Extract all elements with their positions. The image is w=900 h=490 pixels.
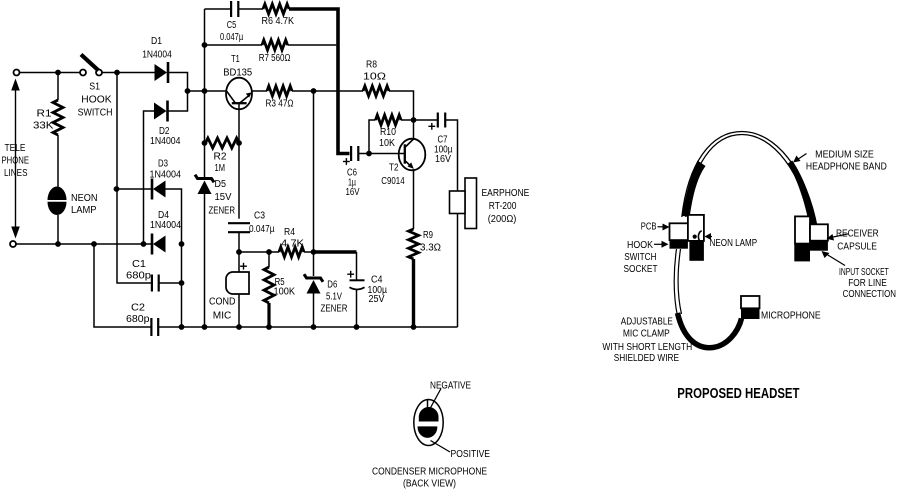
svg-text:COND: COND — [209, 297, 236, 308]
svg-text:T1: T1 — [231, 54, 240, 65]
node junction R7 left on X5 — [202, 42, 208, 48]
node junction T2 collector C7 — [411, 117, 417, 123]
svg-text:PHONE: PHONE — [2, 156, 30, 167]
wire mic bottom to rail — [238, 294, 240, 327]
label POSITIVE — [451, 449, 491, 460]
svg-text:0.047µ: 0.047µ — [249, 224, 275, 235]
headset microphone box — [741, 296, 760, 308]
transistor T1 BD135 — [226, 78, 252, 110]
node junction C1 X3 — [179, 280, 185, 286]
svg-text:15V: 15V — [215, 192, 232, 203]
diode D4 1N4004 — [152, 234, 166, 255]
label NEON LAMP — [71, 193, 98, 216]
diode D3 1N4004 — [152, 179, 166, 200]
svg-text:CONDENSER MICROPHONE: CONDENSER MICROPHONE — [372, 467, 487, 478]
svg-text:HEADPHONE BAND: HEADPHONE BAND — [806, 162, 887, 173]
resistor R5 100K — [264, 267, 274, 303]
wire R4 right short lead — [304, 251, 314, 253]
label R8 10Ω — [363, 60, 386, 83]
wire R1 top lead — [57, 73, 59, 101]
svg-text:CONNECTION: CONNECTION — [843, 289, 896, 300]
svg-text:1N4004: 1N4004 — [150, 170, 182, 181]
svg-text:100K: 100K — [274, 287, 296, 298]
svg-text:0.047µ: 0.047µ — [220, 32, 243, 43]
label NEGATIVE — [430, 381, 471, 392]
label HOOK SWITCH SOCKET with arrow — [624, 240, 669, 275]
svg-text:10Ω: 10Ω — [363, 72, 386, 83]
label EARPHONE RT-200 200ohm — [482, 188, 530, 225]
node junction mic bottom rail — [236, 324, 242, 330]
svg-text:5.1V: 5.1V — [326, 292, 342, 303]
resistor R1 — [53, 100, 63, 135]
label C2 680p — [126, 303, 150, 326]
svg-text:R9: R9 — [423, 230, 433, 241]
terminal top telephone line — [14, 70, 20, 76]
label MICROPHONE — [761, 311, 821, 322]
wire T2 emitter down to R9 — [413, 169, 415, 229]
svg-text:TELE: TELE — [5, 143, 26, 154]
svg-text:SOCKET: SOCKET — [624, 264, 658, 275]
svg-text:1M: 1M — [215, 163, 226, 174]
leader line negative terminal — [430, 389, 442, 410]
svg-text:ZENER: ZENER — [209, 206, 236, 217]
headset band inner line — [686, 135, 813, 230]
wire thick feedback rail R6 to C6 — [289, 9, 350, 154]
label C3 0.047µ — [249, 211, 275, 236]
wire thick R4 to C4 — [314, 250, 357, 253]
wire D1 cathode corner to node — [169, 73, 188, 92]
svg-text:LINES: LINES — [4, 168, 28, 179]
wire T1 emitter line down — [238, 103, 240, 219]
headset left earpiece housing box — [688, 215, 704, 241]
resistor R3 47 — [267, 86, 292, 96]
svg-text:33K: 33K — [33, 121, 54, 132]
terminal bottom telephone line — [10, 241, 16, 247]
svg-text:R2: R2 — [214, 152, 227, 163]
svg-text:D6: D6 — [327, 280, 337, 291]
svg-text:R7 560Ω: R7 560Ω — [259, 53, 291, 64]
label R1 33K — [33, 109, 54, 132]
zener diode D6 5.1V — [304, 274, 323, 293]
wire C7 row — [414, 119, 438, 121]
node junction X5 bottom rail — [202, 324, 208, 330]
svg-text:S1: S1 — [89, 81, 100, 92]
svg-text:680p: 680p — [126, 314, 150, 325]
wire R3 to R8 crossing thick rail — [292, 90, 363, 92]
capacitor C6 1u electrolytic — [351, 146, 358, 161]
neon lamp NE1 — [48, 187, 67, 216]
wire line A top from terminal to switch — [20, 72, 81, 74]
label R4 4.7K — [281, 227, 305, 250]
svg-text:4.7K: 4.7K — [281, 239, 305, 250]
node junction C6 R10 left — [366, 151, 372, 157]
svg-text:MIC CLAMP: MIC CLAMP — [623, 329, 670, 340]
label RECEIVER CAPSULE with arrow — [827, 228, 879, 252]
label PROPOSED HEADSET title — [677, 386, 799, 402]
wire R10 right lead — [401, 119, 414, 121]
headset left earpiece lower black block — [689, 241, 704, 261]
svg-text:1N4004: 1N4004 — [150, 136, 181, 147]
svg-text:C2: C2 — [131, 303, 145, 314]
capacitor C7 100u electrolytic — [438, 113, 445, 128]
node junction C4 bottom rail — [354, 324, 360, 330]
wire D2 cathode corner up to node — [169, 91, 188, 111]
node junction neon on line B — [55, 241, 61, 247]
svg-text:MIC: MIC — [213, 311, 232, 322]
wire link node down to R4 row — [313, 91, 315, 252]
label C1 680p — [126, 259, 152, 282]
svg-text:POSITIVE: POSITIVE — [451, 449, 491, 460]
svg-text:BD135: BD135 — [223, 68, 253, 79]
resistor R4 4.7K — [279, 247, 304, 257]
svg-text:LAMP: LAMP — [71, 205, 97, 216]
node junction R2 left on X5 — [202, 140, 208, 146]
transistor T2 C9014 — [399, 139, 426, 171]
earphone RT-200 speaker — [450, 178, 477, 229]
label COND MIC — [209, 297, 236, 322]
resistor R7 560 — [262, 40, 288, 50]
wire X4 rail down to C2 — [94, 244, 151, 327]
svg-text:D3: D3 — [158, 159, 168, 170]
wire C5 to R6 — [238, 8, 263, 10]
svg-text:HOOK: HOOK — [627, 240, 653, 251]
label D3 1N4004 — [150, 159, 182, 181]
label R5 100K — [274, 277, 296, 298]
svg-text:T2: T2 — [389, 163, 399, 174]
wire C4 bottom lead — [356, 290, 358, 328]
resistor R6 4.7K — [263, 4, 289, 14]
svg-text:D5: D5 — [215, 179, 227, 190]
label C7 100µ 16V — [434, 135, 453, 166]
label INPUT SOCKET FOR LINE CONNECTION with arrow — [822, 251, 897, 300]
zener diode D5 15V — [195, 175, 214, 194]
wire earphone bottom to rail — [457, 214, 459, 328]
svg-text:SWITCH: SWITCH — [78, 107, 113, 118]
label mic plus polarity — [240, 263, 247, 270]
resistor R2 1M — [206, 138, 240, 148]
node junction R5 bottom rail — [266, 324, 272, 330]
svg-text:R10: R10 — [380, 127, 396, 138]
label T2 C9014 — [381, 163, 405, 188]
svg-text:SHIELDED WIRE: SHIELDED WIRE — [614, 353, 680, 364]
wire C7 right corner down to earphone — [445, 120, 457, 191]
resistor R9 3.3 — [409, 229, 419, 259]
svg-text:NEON: NEON — [71, 193, 98, 204]
wire top row left — [205, 8, 232, 10]
headset mic boom thin wires — [674, 249, 681, 316]
label R2 1M — [214, 152, 227, 175]
wire T1 collector to R3 — [252, 90, 268, 92]
wire C4 top lead — [356, 252, 358, 280]
label C4 plus polarity — [347, 271, 354, 278]
node junction R2 emitter line — [236, 140, 242, 146]
svg-text:C9014: C9014 — [381, 176, 405, 187]
svg-text:INPUT SOCKET: INPUT SOCKET — [839, 267, 889, 278]
svg-text:ZENER: ZENER — [321, 304, 348, 315]
headset microphone black block — [741, 308, 760, 319]
wire line B bottom from terminal to D4 — [16, 243, 152, 245]
svg-text:D1: D1 — [151, 36, 162, 47]
capacitor C2 680p — [151, 318, 158, 336]
headset band outer line — [682, 132, 818, 230]
switch S1 hook switch — [80, 55, 102, 76]
svg-text:NEGATIVE: NEGATIVE — [430, 381, 471, 392]
headset left earpiece PCB box — [670, 223, 688, 240]
svg-text:680p: 680p — [126, 271, 152, 282]
svg-text:(200Ω): (200Ω) — [488, 214, 517, 225]
wire C3 bottom to mic — [238, 232, 240, 272]
node junction D4 X3 on line B — [179, 241, 185, 247]
wire D5 anode down to bottom rail — [204, 194, 206, 328]
svg-text:RECEIVER: RECEIVER — [836, 228, 879, 239]
svg-text:C4: C4 — [371, 275, 383, 286]
headset right earpiece lower black block — [794, 244, 810, 262]
headset neon lamp on earpiece — [693, 231, 702, 242]
node junction R1 top on line A — [55, 70, 61, 76]
wire line A from switch to D1 — [102, 72, 155, 74]
svg-text:R1: R1 — [37, 109, 52, 120]
label C5 0.047µ — [220, 20, 243, 43]
svg-text:16V: 16V — [435, 154, 451, 165]
wire R7 row — [205, 44, 263, 46]
wire C1 right lead — [159, 282, 182, 284]
label MEDIUM SIZE HEADPHONE BAND with arrow — [793, 150, 887, 173]
svg-text:10K: 10K — [379, 138, 395, 149]
node junction R5 top — [266, 249, 272, 255]
diode D2 1N4004 — [154, 101, 168, 122]
node junction X4 on line B — [91, 241, 97, 247]
svg-text:R4: R4 — [284, 227, 295, 238]
svg-text:16V: 16V — [346, 187, 360, 198]
wire R9 bottom thick lead — [412, 259, 415, 327]
svg-text:NEON LAMP: NEON LAMP — [710, 238, 758, 249]
label D6 5.1V ZENER — [321, 280, 348, 315]
headset band thick right segment — [788, 161, 817, 229]
svg-text:EARPHONE: EARPHONE — [482, 188, 530, 199]
capacitor C3 0.047u — [228, 223, 250, 232]
svg-text:FOR LINE: FOR LINE — [848, 278, 887, 289]
svg-text:1N4004: 1N4004 — [150, 220, 181, 231]
svg-text:CAPSULE: CAPSULE — [837, 241, 877, 252]
headset band thick left segment — [682, 161, 706, 217]
label NEON LAMP headset with arrow — [705, 233, 758, 249]
wire R5 bottom thick lead — [267, 303, 270, 327]
label D5 15V ZENER — [209, 179, 236, 217]
wire R7 right lead to thick rail — [288, 44, 337, 46]
svg-text:(BACK VIEW): (BACK VIEW) — [403, 479, 456, 490]
node junction base rail X5 — [202, 88, 208, 94]
capacitor C5 0.047u — [231, 1, 238, 17]
label PCB with arrow — [641, 221, 670, 232]
svg-text:C3: C3 — [254, 211, 265, 222]
label C7 plus polarity — [428, 123, 435, 130]
label R9 3.3Ω — [420, 230, 441, 254]
capacitor C1 680p — [152, 275, 159, 292]
label D1 1N4004 — [142, 36, 172, 61]
headset mic boom thick arc — [678, 313, 742, 348]
svg-text:C5: C5 — [227, 20, 237, 31]
svg-text:C1: C1 — [132, 259, 146, 270]
node junction R4 D6 thick wire — [311, 249, 317, 255]
wire X3 rail down to C1 C2 — [181, 244, 183, 327]
svg-text:R6 4.7K: R6 4.7K — [262, 16, 295, 27]
svg-text:1N4004: 1N4004 — [142, 50, 172, 61]
svg-text:3.3Ω: 3.3Ω — [420, 243, 441, 254]
label D4 1N4004 — [150, 210, 181, 231]
wire R4 row left — [239, 251, 279, 253]
label R10 10K — [379, 127, 396, 149]
node junction R3 right / link to R4 — [311, 88, 317, 94]
label R6 4.7K — [262, 16, 295, 27]
label BACK VIEW — [403, 479, 456, 490]
resistor R10 10K — [376, 115, 402, 125]
leader line positive terminal — [431, 441, 451, 453]
label S1 HOOK SWITCH — [78, 81, 113, 118]
svg-text:PROPOSED HEADSET: PROPOSED HEADSET — [677, 386, 799, 402]
wire D3 anode corner down X3 — [166, 189, 182, 244]
node junction X3 bottom rail — [179, 324, 185, 330]
node junction line A / X1 rail — [114, 70, 120, 76]
svg-text:WITH SHORT LENGTH: WITH SHORT LENGTH — [602, 342, 692, 353]
svg-text:25V: 25V — [369, 294, 385, 305]
wire R1 bottom to neon lamp — [57, 135, 59, 187]
svg-text:PCB: PCB — [641, 221, 657, 232]
label C6 plus polarity — [343, 158, 350, 165]
condenser microphone back view body — [414, 400, 443, 446]
telephone lines span arrow — [11, 79, 20, 239]
wire D6 top lead — [313, 252, 315, 276]
resistor R8 10 — [363, 86, 389, 96]
svg-text:HOOK: HOOK — [81, 95, 112, 106]
svg-text:ADJUSTABLE: ADJUSTABLE — [621, 317, 673, 328]
diode D1 1N4004 — [155, 62, 169, 83]
label T1 BD135 — [223, 54, 253, 79]
svg-text:R3 47Ω: R3 47Ω — [266, 99, 294, 110]
wire node to T1 base — [188, 90, 227, 92]
wire D2 anode lead and X2 rail down — [144, 111, 155, 244]
node junction D6 bottom rail — [311, 324, 317, 330]
label C6 1µ 16V — [346, 168, 360, 199]
node junction R9 bottom rail — [411, 324, 417, 330]
svg-text:R8: R8 — [366, 60, 377, 71]
wire X1 rail vertical — [117, 73, 152, 284]
condenser microphone MIC1 — [226, 272, 249, 294]
node junction X2 on line B — [141, 241, 147, 247]
node junction emitter R4 row — [236, 249, 242, 255]
svg-text:MEDIUM SIZE: MEDIUM SIZE — [815, 150, 874, 161]
wire R8 right corner down — [389, 91, 414, 120]
label D2 1N4004 — [150, 126, 181, 147]
label R3 47Ω — [266, 99, 294, 110]
headset input socket black block — [810, 241, 828, 251]
label TELE PHONE LINES — [2, 143, 30, 179]
label CONDENSER MICROPHONE — [372, 467, 487, 478]
headset right earpiece housing box — [795, 216, 810, 243]
headset left earpiece hook switch socket black — [670, 240, 688, 249]
wire T2 collector up — [413, 120, 415, 140]
wire X5 rail from top row down to D5 — [204, 9, 206, 177]
label R7 560Ω — [259, 53, 291, 64]
node junction D1 D2 cathodes — [185, 88, 191, 94]
wire bottom rail ground — [158, 326, 457, 328]
label ADJUSTABLE MIC CLAMP WITH SHORT LENGTH SHIELDED WIRE — [602, 317, 692, 365]
capacitor C4 100u electrolytic — [350, 280, 365, 289]
label C4 100µ 25V — [368, 275, 388, 306]
wire R5 top lead — [268, 252, 270, 267]
wire D3 cathode lead to X1 — [117, 188, 153, 190]
svg-text:SWITCH: SWITCH — [624, 252, 656, 263]
wire C6 right to T2 base — [358, 153, 405, 155]
svg-text:MICROPHONE: MICROPHONE — [761, 311, 821, 322]
svg-text:RT-200: RT-200 — [489, 201, 517, 212]
node junction D3 X1 rail — [114, 186, 120, 192]
wire D6 anode to rail — [313, 293, 315, 327]
wire neon lamp bottom to line B — [57, 215, 59, 244]
headset receiver capsule box — [810, 224, 828, 240]
wire R10 left corner — [369, 120, 376, 154]
